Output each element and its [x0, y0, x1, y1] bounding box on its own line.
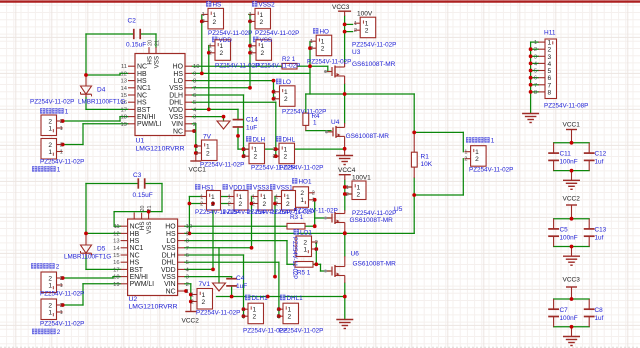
svg-text:1: 1 [186, 289, 189, 295]
svg-text:C14: C14 [246, 117, 258, 124]
svg-text:2: 2 [206, 150, 210, 157]
svg-text:D5: D5 [97, 246, 106, 253]
svg-text:LO: LO [166, 238, 176, 245]
svg-text:20: 20 [148, 40, 154, 46]
svg-text:12: 12 [121, 71, 127, 77]
svg-text:2: 2 [220, 50, 224, 57]
svg-text:21: 21 [147, 206, 153, 212]
svg-text:LO: LO [283, 79, 292, 86]
svg-text:HO: HO [165, 224, 176, 231]
svg-text:2: 2 [275, 201, 278, 207]
svg-text:5: 5 [534, 69, 537, 75]
svg-text:2: 2 [239, 201, 243, 208]
svg-text:2: 2 [273, 97, 276, 103]
svg-text:1: 1 [261, 43, 265, 50]
svg-text:1: 1 [48, 149, 52, 156]
svg-text:PZ254V-11-02P: PZ254V-11-02P [215, 63, 259, 70]
svg-text:2: 2 [286, 201, 290, 208]
svg-text:5: 5 [193, 100, 196, 106]
svg-text:1: 1 [228, 194, 231, 200]
svg-text:2: 2 [249, 19, 252, 25]
svg-text:1: 1 [300, 197, 304, 204]
svg-text:C8: C8 [595, 307, 604, 314]
svg-text:7V: 7V [203, 134, 212, 141]
svg-text:HB: HB [137, 71, 147, 78]
svg-text:2: 2 [213, 19, 217, 26]
svg-text:16: 16 [113, 260, 119, 266]
svg-text:DLH: DLH [253, 137, 266, 144]
svg-text:2: 2 [475, 156, 479, 163]
svg-text:1: 1 [273, 147, 276, 153]
svg-text:PZ254V-11-02P: PZ254V-11-02P [270, 209, 314, 216]
svg-text:BST: BST [130, 267, 144, 274]
svg-text:1: 1 [263, 194, 267, 201]
svg-text:H11: H11 [544, 30, 556, 37]
svg-text:VDD: VDD [168, 107, 183, 114]
svg-text:2: 2 [357, 191, 361, 198]
svg-text:1uf: 1uf [595, 235, 604, 242]
svg-text:1uF: 1uF [246, 125, 257, 132]
svg-text:1: 1 [310, 39, 313, 45]
svg-text:HS: HS [130, 238, 140, 245]
svg-text:8: 8 [534, 90, 537, 96]
svg-text:VCC3: VCC3 [563, 277, 581, 284]
svg-text:VSS: VSS [162, 245, 176, 252]
svg-text:HS1: HS1 [202, 185, 215, 192]
svg-text:PZ254V-11-02P: PZ254V-11-02P [279, 165, 323, 172]
svg-text:1: 1 [475, 149, 479, 156]
svg-text:1: 1 [200, 194, 203, 200]
svg-text:1: 1 [365, 21, 369, 28]
svg-text:GS61008T-MR: GS61008T-MR [346, 133, 390, 140]
svg-text:D4: D4 [97, 87, 106, 94]
svg-text:GS61008T-MR: GS61008T-MR [352, 61, 396, 68]
svg-text:2: 2 [354, 28, 357, 34]
svg-text:2: 2 [253, 314, 257, 321]
svg-text:19: 19 [121, 122, 127, 128]
svg-text:1: 1 [220, 43, 224, 50]
svg-text:2: 2 [209, 51, 212, 57]
svg-text:VSS: VSS [169, 114, 183, 121]
svg-text:PZ254V-11-02P: PZ254V-11-02P [40, 159, 84, 166]
svg-text:17: 17 [113, 267, 119, 273]
svg-text:R5 1: R5 1 [297, 270, 311, 277]
svg-text:2: 2 [191, 299, 194, 305]
svg-text:VIN: VIN [164, 281, 176, 288]
svg-text:13: 13 [121, 79, 127, 85]
svg-text:11: 11 [114, 224, 120, 230]
svg-text:2: 2 [321, 46, 325, 53]
svg-text:U4: U4 [331, 119, 340, 126]
svg-text:VDD1: VDD1 [229, 185, 246, 192]
svg-text:18: 18 [121, 115, 127, 121]
svg-text:2: 2 [300, 190, 304, 197]
svg-text:1: 1 [250, 44, 253, 50]
svg-text:5: 5 [548, 68, 552, 75]
svg-text:2: 2 [48, 275, 52, 282]
svg-text:1: 1 [548, 40, 552, 47]
svg-text:100nF: 100nF [560, 235, 578, 242]
svg-text:1uF: 1uF [236, 283, 247, 290]
svg-text:PZ254V-11-02P: PZ254V-11-02P [282, 109, 326, 116]
svg-text:2: 2 [534, 47, 537, 53]
svg-text:U1: U1 [136, 138, 145, 145]
svg-text:VCC3: VCC3 [332, 4, 350, 11]
svg-text:1: 1 [213, 12, 217, 19]
svg-text:4: 4 [548, 61, 552, 68]
svg-text:100nF: 100nF [560, 159, 578, 166]
svg-text:C5: C5 [560, 227, 569, 234]
svg-text:HS: HS [213, 2, 222, 9]
svg-text:LMBR1100FT1G: LMBR1100FT1G [64, 254, 111, 261]
svg-text:2: 2 [228, 201, 231, 207]
svg-text:0.15uF: 0.15uF [133, 192, 153, 199]
svg-text:DLH1: DLH1 [252, 295, 269, 302]
svg-text:LMG1210RVRR: LMG1210RVRR [129, 304, 178, 311]
svg-text:2: 2 [263, 201, 267, 208]
svg-text:7V1: 7V1 [199, 281, 211, 288]
svg-text:8: 8 [186, 239, 189, 245]
svg-text:1: 1 [284, 147, 288, 154]
svg-text:EN/HI: EN/HI [130, 274, 148, 281]
svg-text:HS: HS [166, 231, 176, 238]
svg-text:2: 2 [310, 46, 313, 52]
svg-text:100V: 100V [357, 11, 373, 18]
svg-text:1: 1 [193, 129, 196, 135]
svg-text:2: 2 [186, 282, 189, 288]
svg-text:2: 2 [56, 264, 60, 271]
svg-text:2: 2 [48, 142, 52, 149]
svg-text:LMG1210RVRR: LMG1210RVRR [136, 146, 185, 153]
svg-text:PZ254V-11-02P: PZ254V-11-02P [352, 42, 396, 49]
svg-text:LO: LO [174, 78, 184, 85]
svg-text:3: 3 [534, 54, 537, 60]
svg-text:8: 8 [548, 89, 552, 96]
svg-text:PZ254V-11-02P: PZ254V-11-02P [196, 310, 240, 317]
svg-text:1: 1 [209, 44, 212, 50]
svg-text:6: 6 [534, 76, 537, 82]
svg-text:R2 1: R2 1 [282, 56, 296, 63]
svg-text:2: 2 [48, 302, 52, 309]
svg-text:2: 2 [315, 240, 318, 246]
svg-text:PZ254V-11-02P: PZ254V-11-02P [352, 210, 396, 217]
svg-text:1: 1 [57, 167, 61, 174]
svg-text:1: 1 [464, 150, 467, 156]
svg-text:2: 2 [284, 154, 288, 161]
svg-text:DLH: DLH [169, 92, 183, 99]
svg-text:VSS2: VSS2 [259, 2, 276, 9]
svg-text:2: 2 [365, 28, 369, 35]
svg-text:2: 2 [195, 151, 198, 157]
svg-text:1: 1 [321, 39, 325, 46]
svg-text:1: 1 [253, 307, 257, 314]
svg-text:1: 1 [534, 40, 537, 46]
svg-text:3: 3 [548, 54, 552, 61]
svg-text:HS: HS [130, 260, 140, 267]
svg-text:17: 17 [121, 107, 127, 113]
svg-text:PZ254V-11-02P: PZ254V-11-02P [469, 167, 513, 174]
svg-text:1: 1 [239, 194, 243, 201]
svg-text:VSS3: VSS3 [253, 185, 270, 192]
svg-text:1: 1 [313, 120, 317, 127]
svg-text:NC: NC [137, 92, 147, 99]
svg-text:PZ254V-11-02P: PZ254V-11-02P [200, 162, 244, 169]
svg-text:1: 1 [243, 147, 246, 153]
svg-text:VSS1: VSS1 [277, 185, 294, 192]
svg-text:DHL: DHL [169, 100, 183, 107]
svg-text:1: 1 [48, 282, 52, 289]
svg-text:11: 11 [121, 64, 127, 70]
svg-text:2: 2 [57, 329, 61, 336]
svg-text:14: 14 [121, 86, 128, 92]
svg-text:1: 1 [249, 12, 252, 18]
svg-text:2: 2 [202, 19, 205, 25]
svg-text:2: 2 [284, 96, 288, 103]
svg-text:1: 1 [312, 198, 315, 204]
svg-text:12: 12 [113, 231, 119, 237]
svg-text:10: 10 [193, 64, 199, 70]
svg-text:7: 7 [534, 83, 537, 89]
svg-text:U6: U6 [351, 251, 360, 258]
svg-text:1: 1 [303, 246, 307, 253]
svg-text:1: 1 [60, 310, 63, 316]
svg-text:7: 7 [548, 82, 552, 89]
svg-text:1: 1 [346, 185, 349, 191]
svg-text:2: 2 [273, 154, 276, 160]
svg-text:20: 20 [140, 206, 146, 212]
svg-text:1: 1 [48, 309, 52, 316]
svg-text:1uf: 1uf [595, 159, 604, 166]
svg-text:PZ254V-11-08P: PZ254V-11-08P [544, 103, 588, 110]
svg-text:DHL: DHL [283, 137, 296, 144]
svg-text:PZ254V-11-02P: PZ254V-11-02P [40, 291, 84, 298]
svg-text:DLH: DLH [162, 252, 176, 259]
svg-text:HS: HS [137, 100, 147, 107]
svg-text:1: 1 [206, 143, 210, 150]
svg-text:C3: C3 [133, 172, 142, 179]
svg-text:VCC2: VCC2 [182, 318, 200, 325]
svg-text:2: 2 [60, 119, 63, 125]
svg-text:NC: NC [166, 288, 176, 295]
svg-text:4: 4 [534, 61, 537, 67]
svg-text:1: 1 [242, 307, 245, 313]
svg-text:10K: 10K [421, 161, 433, 168]
svg-text:13: 13 [113, 239, 119, 245]
svg-text:VIN: VIN [172, 121, 184, 128]
svg-text:1: 1 [288, 307, 292, 314]
svg-text:1: 1 [260, 12, 264, 19]
svg-text:HS: HS [173, 71, 183, 78]
svg-text:7: 7 [186, 246, 189, 252]
svg-text:2: 2 [60, 276, 63, 282]
svg-text:100V1: 100V1 [352, 175, 371, 182]
svg-text:VCC2: VCC2 [563, 196, 581, 203]
svg-text:1: 1 [191, 292, 194, 298]
svg-text:2: 2 [200, 201, 203, 207]
svg-text:EN/HI: EN/HI [137, 114, 155, 121]
svg-text:VDD: VDD [161, 267, 176, 274]
svg-text:2: 2 [254, 154, 258, 161]
svg-text:HB: HB [130, 231, 140, 238]
svg-text:C4: C4 [236, 275, 245, 282]
svg-text:2: 2 [288, 314, 292, 321]
svg-text:NC: NC [130, 224, 140, 231]
svg-text:C2: C2 [128, 18, 137, 25]
svg-text:DHL1: DHL1 [287, 295, 304, 302]
svg-text:1: 1 [60, 283, 63, 289]
svg-text:2: 2 [250, 51, 253, 57]
svg-text:HS: HS [139, 222, 146, 231]
svg-text:1: 1 [48, 125, 52, 132]
svg-text:1: 1 [277, 307, 280, 313]
svg-text:VSS: VSS [146, 222, 153, 234]
svg-text:1: 1 [65, 109, 69, 116]
svg-text:2: 2 [346, 192, 349, 198]
svg-text:PWM/LI: PWM/LI [137, 121, 162, 128]
svg-text:GS61008T-MR: GS61008T-MR [350, 217, 394, 224]
svg-text:PZ254V-11-02P: PZ254V-11-02P [208, 30, 252, 37]
svg-text:VCC1: VCC1 [563, 122, 581, 129]
svg-text:VSS: VSS [154, 56, 161, 68]
svg-text:9: 9 [186, 231, 189, 237]
svg-text:R1: R1 [421, 154, 430, 161]
svg-text:C11: C11 [560, 151, 572, 158]
svg-text:C13: C13 [595, 227, 607, 234]
svg-text:2: 2 [464, 157, 467, 163]
svg-text:14: 14 [113, 246, 120, 252]
svg-text:HO1: HO1 [299, 179, 312, 186]
svg-text:2: 2 [60, 303, 63, 309]
svg-text:2: 2 [242, 314, 245, 320]
svg-text:1: 1 [286, 194, 290, 201]
svg-text:1: 1 [202, 12, 205, 18]
svg-text:8: 8 [193, 79, 196, 85]
svg-text:15: 15 [113, 253, 119, 259]
svg-text:U3: U3 [352, 49, 361, 56]
svg-text:1: 1 [60, 149, 63, 155]
svg-text:1: 1 [275, 194, 278, 200]
svg-text:2: 2 [548, 47, 552, 54]
svg-text:6: 6 [193, 93, 196, 99]
svg-text:0.15uF: 0.15uF [126, 42, 146, 49]
svg-text:1: 1 [60, 126, 63, 132]
svg-text:U2: U2 [129, 296, 138, 303]
svg-text:9: 9 [193, 71, 196, 77]
svg-text:NC1: NC1 [130, 245, 144, 252]
svg-text:PZ254V-11-02P: PZ254V-11-02P [30, 99, 74, 106]
svg-text:VSS: VSS [162, 274, 176, 281]
svg-text:NC: NC [137, 64, 147, 71]
svg-text:1: 1 [254, 147, 258, 154]
svg-text:PWM/LI: PWM/LI [130, 281, 155, 288]
svg-text:1: 1 [273, 90, 276, 96]
svg-text:HO: HO [173, 64, 184, 71]
svg-text:1: 1 [315, 247, 318, 253]
svg-text:LMBR1100FT1G: LMBR1100FT1G [78, 99, 125, 106]
svg-text:2: 2 [193, 122, 196, 128]
svg-text:VCC1: VCC1 [189, 167, 207, 174]
svg-text:1: 1 [357, 184, 361, 191]
svg-text:NC: NC [173, 128, 183, 135]
svg-text:1: 1 [202, 292, 206, 299]
svg-text:100nF: 100nF [560, 315, 578, 322]
svg-text:2: 2 [60, 142, 63, 148]
svg-text:6: 6 [186, 253, 189, 259]
svg-text:1: 1 [195, 144, 198, 150]
svg-text:PZ254V-11-02P: PZ254V-11-02P [255, 30, 299, 37]
svg-text:2: 2 [277, 314, 280, 320]
svg-text:18: 18 [113, 275, 119, 281]
svg-text:2: 2 [312, 191, 315, 197]
svg-text:BST: BST [137, 107, 151, 114]
svg-text:HS: HS [147, 56, 154, 65]
svg-text:2: 2 [260, 19, 264, 26]
svg-text:1: 1 [491, 138, 495, 145]
svg-text:NC1: NC1 [137, 85, 151, 92]
svg-text:HO: HO [320, 29, 330, 36]
svg-text:2: 2 [211, 201, 215, 208]
svg-text:1: 1 [354, 21, 357, 27]
svg-text:2: 2 [243, 154, 246, 160]
svg-text:7: 7 [193, 86, 196, 92]
svg-text:19: 19 [113, 282, 119, 288]
svg-text:PZ254V-11-02P: PZ254V-11-02P [256, 63, 300, 70]
svg-text:2: 2 [261, 50, 265, 57]
svg-text:PZ254V-11-02P: PZ254V-11-02P [40, 321, 84, 328]
svg-text:C7: C7 [560, 307, 569, 314]
svg-text:10: 10 [186, 224, 192, 230]
svg-text:1: 1 [284, 89, 288, 96]
svg-text:GS61008T-MR: GS61008T-MR [353, 261, 397, 268]
svg-text:3: 3 [186, 275, 189, 281]
svg-text:C12: C12 [595, 151, 607, 158]
svg-text:VSS: VSS [169, 85, 183, 92]
svg-text:21: 21 [155, 40, 161, 46]
svg-text:NC: NC [130, 252, 140, 259]
svg-text:2: 2 [202, 299, 206, 306]
svg-text:1: 1 [252, 194, 255, 200]
svg-text:2: 2 [48, 118, 52, 125]
svg-text:2: 2 [303, 239, 307, 246]
svg-text:DHL: DHL [162, 260, 176, 267]
svg-text:1: 1 [211, 194, 215, 201]
svg-text:LO1: LO1 [300, 230, 312, 237]
svg-text:2: 2 [252, 201, 255, 207]
svg-text:1uf: 1uf [595, 315, 604, 322]
svg-text:5: 5 [186, 260, 189, 266]
svg-text:3: 3 [193, 115, 196, 121]
svg-text:6: 6 [548, 75, 552, 82]
svg-text:PZ254V-11-02P: PZ254V-11-02P [307, 59, 351, 66]
svg-text:HS: HS [137, 78, 147, 85]
svg-text:VCC4: VCC4 [338, 167, 356, 174]
svg-text:PZ254V-11-02P: PZ254V-11-02P [279, 328, 323, 335]
